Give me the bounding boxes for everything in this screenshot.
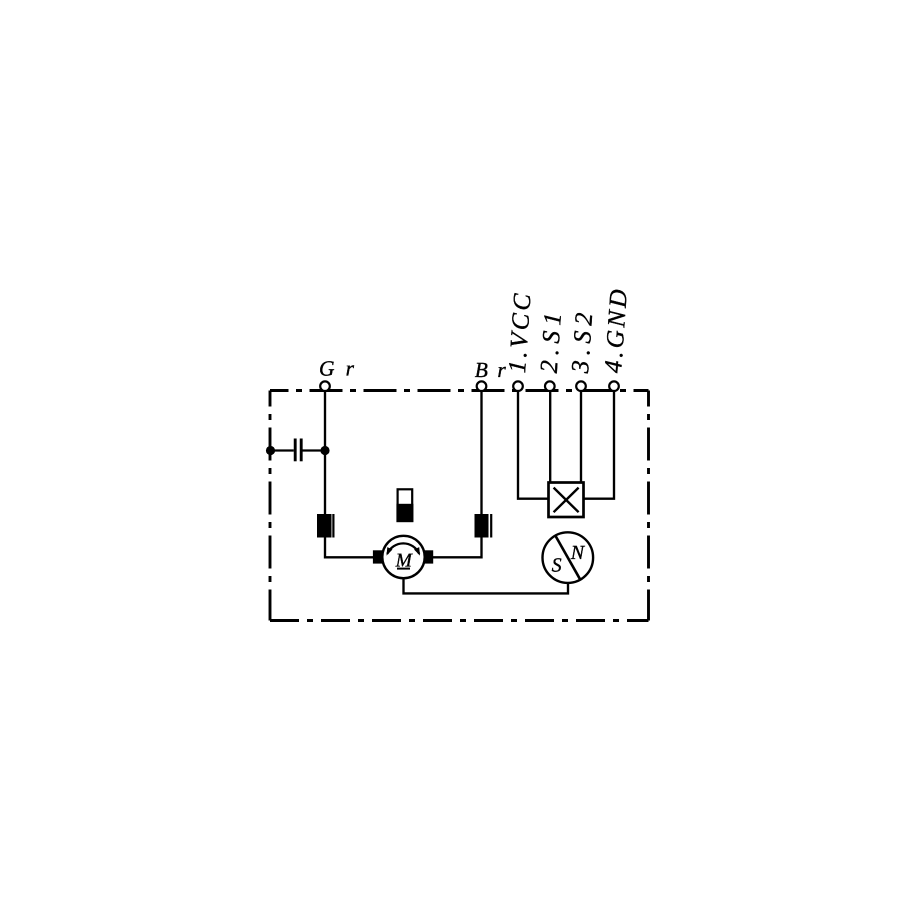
magnet divider line	[555, 536, 580, 580]
wire terminal 2.S1 to hall sensor top	[549, 389, 551, 483]
magnet rotor B1 (N/S circle)	[543, 532, 594, 583]
svg-text:2.S1: 2.S1	[536, 306, 568, 373]
terminal 2 S1	[545, 381, 555, 391]
wire Br terminal to right choke to motor right brush	[433, 389, 482, 557]
svg-text:3.S2: 3.S2	[567, 306, 599, 374]
svg-text:1.VCC: 1.VCC	[504, 290, 537, 374]
rotation arrow arc	[387, 543, 419, 553]
inductor choke L2 (right)	[475, 514, 492, 538]
rotation arrowhead left	[387, 547, 393, 556]
terminal 1 VCC	[513, 381, 523, 391]
terminal Gr	[320, 381, 330, 391]
inductor choke L1 (left)	[317, 514, 333, 538]
thermal fuse F1 above motor	[396, 489, 413, 522]
terminal 3 S2	[576, 381, 586, 391]
motor M underline	[397, 568, 410, 570]
wire terminal 1.VCC to hall sensor left	[518, 389, 549, 499]
motor brush left	[373, 550, 383, 563]
wire terminal 3.S2 to hall sensor top	[580, 389, 582, 483]
motor M1	[373, 536, 433, 578]
wire motor bottom to magnet bottom	[404, 578, 569, 593]
wire shield to capacitor left plate	[271, 449, 294, 451]
wire terminal 4.GND to hall sensor right	[584, 389, 615, 499]
motor brush right	[424, 550, 433, 563]
svg-text:S: S	[552, 554, 562, 576]
wire Gr terminal to left choke to motor left brush	[325, 389, 374, 557]
svg-text:N: N	[570, 542, 586, 564]
junction on Gr line	[320, 446, 329, 455]
hall sensor U1 (crossed box)	[549, 483, 584, 518]
junction on shield (left)	[266, 446, 275, 455]
rotation arrowhead right	[414, 547, 420, 556]
terminal 4 GND	[609, 381, 619, 391]
terminal Br	[477, 381, 487, 391]
wire capacitor right plate to Gr line	[302, 449, 325, 451]
capacitor C1	[295, 439, 301, 462]
enclosure shield outline (dash-dot frame)	[270, 391, 649, 621]
